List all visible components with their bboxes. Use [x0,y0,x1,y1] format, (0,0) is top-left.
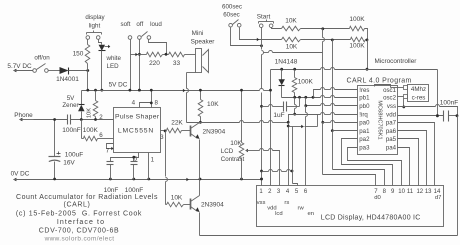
svg-text:display: display [85,14,105,21]
svg-text:11: 11 [407,189,414,195]
svg-text:soft: soft [121,21,131,28]
svg-text:220: 220 [149,60,160,67]
svg-text:rs: rs [284,200,289,206]
svg-text:LMC555N: LMC555N [118,128,154,135]
svg-text:d7: d7 [435,195,442,201]
wire start left pole vss line [260,28,263,186]
wire phone line [34,119,68,121]
resistor R10 10K row2 [282,37,351,50]
svg-text:0V DC: 0V DC [11,171,30,178]
svg-text:5.7V DC: 5.7V DC [7,63,32,70]
svg-text:d0: d0 [374,195,381,201]
wire Q1 collector node [187,121,289,123]
svg-text:7: 7 [106,147,110,154]
switch S3 soft off loud [121,21,163,39]
svg-text:Contrast: Contrast [221,156,245,163]
LED D2 white [99,40,122,71]
svg-text:2: 2 [99,114,103,121]
speaker LS1 mini [191,30,216,73]
svg-text:off/on: off/on [34,55,50,62]
svg-text:MC68HC705K1: MC68HC705K1 [377,100,383,139]
wire LED cathode to 5V rail [100,51,103,92]
wire switch row2 vertical [331,40,334,170]
svg-text:pa7: pa7 [386,120,397,127]
wire clamp node [282,96,358,99]
LCD pin names [257,195,442,217]
resistor R6 220 [147,52,169,67]
wire irq jog to rw [287,115,318,186]
wire Q2 collector [199,180,201,196]
svg-text:Pulse Shaper: Pulse Shaper [115,114,160,121]
pin 2 label [99,114,103,121]
capacitor C6 100nF decoupling [398,100,459,122]
zener diode D3 5V [62,91,84,120]
svg-text:pa2: pa2 [359,136,370,143]
svg-text:off: off [136,21,143,28]
svg-text:vss: vss [257,200,266,206]
capacitor C2 100uF 16V electrolytic [49,118,84,179]
title text block [16,194,158,243]
node A junction diode/150/rail [86,69,89,90]
pin 3 output wire [160,130,166,141]
svg-text:13: 13 [425,189,432,195]
resistor R5 10K pullup [198,89,219,124]
node 5.7V DC input terminal [7,63,32,72]
svg-text:Zener: Zener [62,102,78,109]
LCD module HD44780A00 box [257,186,444,227]
resistor R9 100K row1 [349,16,367,39]
svg-text:150: 150 [73,51,84,58]
svg-text:loud: loud [150,21,162,28]
resistor R2 10K zener side [87,91,98,120]
wire res staircase [314,88,358,98]
svg-text:pa5: pa5 [386,136,397,143]
wire lcd rs line [288,123,290,186]
svg-text:2N3904: 2N3904 [203,129,226,136]
svg-text:Count Accumulator for Radiatio: Count Accumulator for Radiation Levels [16,194,158,201]
transistor Q1 2N3904 [191,123,226,140]
wire pa1 to d1 [333,131,385,186]
capacitor C1 100nF coupling [62,115,113,135]
svg-text:pa6: pa6 [386,128,397,135]
wire vss to rw tie [262,170,294,173]
svg-text:100K: 100K [83,127,99,134]
svg-text:10K: 10K [207,101,219,108]
svg-text:1uF: 1uF [273,112,284,119]
power rail 0V DC [11,171,263,182]
switch S2 display light [85,14,105,39]
resonator X1 4Mhz c-res [375,85,429,102]
wire pa6 to d6 [398,131,427,186]
svg-text:Phone: Phone [14,112,33,119]
wire pa3 to d3 [348,148,402,186]
svg-text:8: 8 [154,100,158,107]
svg-text:CDV-700, CDV700-6B: CDV-700, CDV700-6B [39,227,119,234]
svg-text:LCD Display, HD44780A00 IC: LCD Display, HD44780A00 IC [321,214,421,221]
node Phone input terminal [14,112,33,121]
svg-text:1N4001: 1N4001 [56,76,79,83]
pin 7 jumper [106,144,114,155]
svg-text:pa1: pa1 [359,128,370,135]
pin 4 and 8 to 5V [132,89,159,108]
svg-text:pb0: pb0 [359,103,370,110]
diode D4 1N4148 [275,58,298,97]
wire pa2 to d2 [342,139,393,186]
wire pa4 to d4 [398,148,410,186]
svg-text:10K: 10K [171,194,183,201]
resistor R1 150 [73,40,90,71]
resistor R4 22K [167,119,191,133]
wire 60sec right pole [240,28,282,42]
svg-text:1: 1 [151,157,155,164]
svg-text:LED: LED [107,63,120,70]
wire pot wiper [245,149,279,186]
svg-text:Interface to: Interface to [57,219,105,226]
svg-text:100nF: 100nF [440,100,458,107]
diode D1 1N4001 [56,67,87,83]
svg-text:3: 3 [160,134,164,141]
svg-text:!irq: !irq [359,112,367,119]
svg-text:60sec: 60sec [223,12,240,19]
pin 1 capacitor C4 100nF [125,153,155,195]
svg-text:osc2: osc2 [383,95,396,102]
svg-text:2N3904: 2N3904 [201,202,224,209]
wire pa7 to d7 [398,123,435,186]
svg-text:16V: 16V [63,160,75,167]
resistor R11 100K row2 [349,37,368,50]
svg-text:4Mhz: 4Mhz [411,86,426,93]
svg-text:10: 10 [398,189,405,195]
svg-text:1N4148: 1N4148 [275,58,298,65]
wire lcd en line [306,106,308,186]
svg-text:vdd: vdd [386,112,396,119]
svg-text:33: 33 [173,60,181,67]
svg-text:CARL 4.0 Program: CARL 4.0 Program [347,77,412,84]
svg-text:Speaker: Speaker [191,39,216,46]
svg-text:10nF: 10nF [104,187,119,194]
switch S1 off/on [33,55,60,73]
wire pa5 to d5 [398,139,419,186]
wire Q2 emitter to bottom rail [199,213,201,236]
wire ground return right [200,116,458,236]
resistor R13 10K Q2 base [166,194,191,207]
wire loud bypass [149,40,168,56]
potentiometer R14 10K LCD contrast [221,89,245,180]
switch S4 600sec/60sec [222,3,242,27]
svg-text:10K: 10K [286,43,298,50]
wire soft pole to rail [129,40,132,92]
wire start right pole [272,28,282,29]
svg-text:Mini: Mini [192,30,204,37]
svg-text:Microcontroller: Microcontroller [375,58,418,65]
resistor R12 100K clamp [292,70,313,98]
svg-text:light: light [89,23,101,30]
MCU pin labels [359,87,396,151]
svg-text:pb1: pb1 [359,95,370,102]
svg-text:100K: 100K [298,79,314,86]
wire gnd row y52 [264,51,323,53]
wire off pole [138,40,141,92]
svg-text:100K: 100K [349,43,365,50]
wire 100K common to 5V [366,40,369,71]
svg-text:100K: 100K [349,16,365,23]
svg-text:100nF: 100nF [125,187,143,194]
svg-text:5V DC: 5V DC [109,82,128,89]
svg-text:100nF: 100nF [62,127,80,134]
svg-text:rw: rw [298,205,305,211]
LCD pin numbers [259,189,441,195]
svg-text:(CARL): (CARL) [64,202,91,209]
svg-text:www.solorb.com/elect: www.solorb.com/elect [44,236,115,243]
wire 600sec left pole [231,28,263,48]
svg-text:600sec: 600sec [222,3,242,10]
svg-text:pa4: pa4 [386,144,397,151]
wire speaker feed [131,53,147,57]
resistor R7 33 [169,52,196,67]
svg-text:pa3: pa3 [359,144,370,151]
resistor R8 10K row1 [282,18,350,31]
svg-text:4: 4 [132,99,136,106]
wire switch row1 vertical [321,29,324,175]
wire pb0 staircase [304,98,357,108]
op-amp U1 LMC555N pulse shaper box [114,108,161,153]
svg-text:LCD: LCD [221,148,234,155]
svg-text:22K: 22K [171,119,183,126]
svg-text:10K: 10K [87,108,93,118]
wire 555 output down [166,131,168,205]
svg-text:lcd: lcd [275,211,283,217]
pin 5 capacitor C3 10nF [104,153,139,195]
power rail 5V DC [82,82,271,92]
wire clamp to irq [293,98,296,116]
svg-text:12: 12 [416,189,423,195]
svg-text:Start: Start [257,14,271,21]
wire vss to ground [398,105,458,116]
svg-text:(c) 15-Feb-2005 G. Forrest Co: (c) 15-Feb-2005 G. Forrest Cook [16,211,142,218]
svg-text:c-res: c-res [412,95,426,102]
svg-text:en: en [308,211,315,217]
transistor Q2 2N3904 [191,196,225,213]
svg-text:white: white [106,55,122,62]
svg-text:!res: !res [359,87,369,94]
capacitor C5 1uF [262,98,300,120]
switch S5 Start pushbutton [257,14,274,28]
svg-text:osc1: osc1 [383,87,396,94]
wire pa0 to d0 [323,121,376,186]
wire resonator ground [402,99,405,109]
wire irq line [287,113,358,124]
wire speaker return [183,73,196,123]
svg-text:pa0: pa0 [359,120,370,127]
svg-text:10K: 10K [285,18,297,25]
resistor R3 100K [82,120,114,141]
microcontroller U2 MC68HC705K1 box [347,58,418,155]
power net 5V distribution [269,68,439,186]
svg-text:100uF: 100uF [65,152,83,159]
pin 6 label wire [99,132,103,139]
wire Q1 emitter to ground [199,140,201,180]
svg-text:vss: vss [387,103,396,110]
svg-text:6: 6 [99,132,103,139]
